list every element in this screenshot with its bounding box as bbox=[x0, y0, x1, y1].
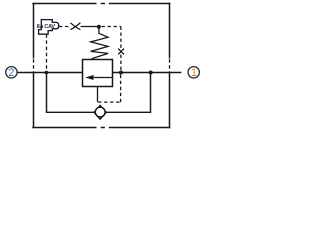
pilot wire (dashed) from plug nose to X1 bbox=[59, 26, 70, 28]
node dot4 on main wire bbox=[149, 71, 153, 75]
boundary box (valve envelope) top edge bbox=[32, 3, 170, 5]
check valve seat (diamond) bbox=[94, 105, 106, 119]
cavity plug symbol (8A CAV) bbox=[39, 20, 59, 35]
node junction dot (spring top) bbox=[97, 25, 101, 29]
pilot dashed across bbox=[98, 101, 121, 103]
wire dot1 down and along bottom bbox=[47, 73, 95, 113]
valve body box bbox=[83, 60, 113, 87]
boundary box bottom edge bbox=[32, 127, 170, 129]
wire check valve to right riser bbox=[106, 73, 150, 113]
pilot dashed up to dot3 bbox=[120, 73, 122, 102]
boundary box left edge (solid, dashed above port wire) bbox=[33, 3, 35, 128]
spring bbox=[91, 27, 109, 59]
svg-text:2: 2 bbox=[8, 67, 14, 79]
plugged-port X1 bbox=[71, 23, 81, 30]
pilot wire (dashed) plug to dot1 bbox=[46, 34, 48, 72]
check valve ball bbox=[95, 107, 105, 117]
pilot wire (dashed) X2 down to main wire bbox=[120, 55, 122, 72]
pilot from valve bottom: solid stub bbox=[97, 86, 99, 102]
main wire port2 to valve bbox=[17, 72, 83, 74]
plugged-port X2 bbox=[118, 49, 124, 55]
port 1 circle bbox=[188, 67, 199, 78]
node dot3 on main wire bbox=[119, 71, 123, 75]
svg-text:8A CAV: 8A CAV bbox=[37, 24, 56, 30]
port 2 circle bbox=[6, 67, 17, 78]
flow path arrow inside valve bbox=[93, 77, 113, 79]
pilot wire (dashed) node to right corner bbox=[102, 27, 121, 49]
main wire valve to port1 (with gap before port) bbox=[112, 72, 181, 74]
wire X1 to node bbox=[81, 26, 99, 28]
boundary box right edge (solid, dashed above port wire) bbox=[169, 3, 171, 128]
svg-text:1: 1 bbox=[191, 67, 197, 79]
node dot1 on main wire (pilot tee) bbox=[45, 71, 49, 75]
